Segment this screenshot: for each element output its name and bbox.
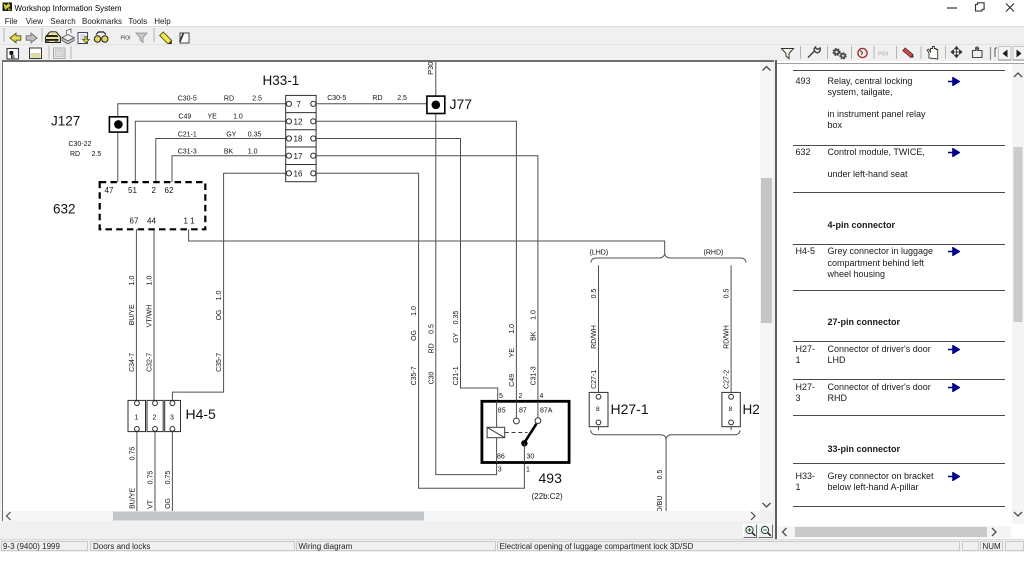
svg-text:C34-7: C34-7: [129, 352, 136, 371]
connector H2: [722, 392, 740, 426]
svg-text:H33-1: H33-1: [263, 72, 300, 87]
svg-text:OG: OG: [165, 498, 172, 509]
svg-text:44: 44: [147, 216, 156, 225]
wire C21-1 632 pin 2 to H33-1 pin 18: [156, 138, 286, 182]
svg-text:OG: OG: [411, 330, 418, 341]
diagram pane chrome: [0, 60, 2, 539]
svg-text:8: 8: [729, 405, 733, 412]
wire C30 J77 to relay pin 3: [436, 113, 497, 474]
svg-text:0.75: 0.75: [148, 470, 155, 484]
wire VT below H4-5 pin 2: [154, 431, 156, 510]
junction J127: [109, 116, 127, 131]
svg-text:18: 18: [294, 134, 303, 143]
svg-text:C30: C30: [428, 371, 435, 384]
junction J77: [427, 96, 445, 113]
svg-text:C49: C49: [178, 113, 191, 120]
svg-text:C21-1: C21-1: [453, 366, 460, 385]
svg-text:1.0: 1.0: [509, 323, 516, 333]
wire value labels rotated: [129, 61, 731, 517]
svg-text:BU/YE: BU/YE: [129, 304, 136, 325]
svg-text:GY: GY: [453, 332, 460, 342]
connector H4-5: [128, 400, 181, 431]
svg-text:C31-3: C31-3: [530, 366, 537, 385]
svg-text:2: 2: [519, 393, 523, 400]
wire C30-5 H33-1 pin 7 to J77: [316, 102, 427, 104]
svg-text:0.35: 0.35: [453, 310, 460, 324]
svg-text:BK: BK: [530, 331, 537, 341]
svg-text:2.5: 2.5: [252, 95, 262, 102]
right panel list: [793, 70, 1005, 71]
dashed actuator link: [505, 431, 528, 433]
svg-text:VT: VT: [148, 499, 155, 509]
strip below diagram: [0, 521, 775, 539]
svg-text:(RHD): (RHD): [704, 249, 724, 256]
svg-text:0.5: 0.5: [591, 288, 598, 298]
wire RD/WH LHD to H27-1: [598, 265, 600, 392]
svg-text:1.0: 1.0: [411, 306, 418, 316]
svg-text:2.5: 2.5: [397, 95, 407, 102]
pin 1: [135, 400, 140, 405]
svg-text:0.75: 0.75: [129, 446, 136, 460]
svg-text:H2: H2: [743, 401, 760, 416]
wire BU/YE 632 pin 67 to H4-5 pin 1: [135, 229, 137, 400]
zoom buttons: [743, 524, 757, 539]
wire C31-3 632 pin 62 to H33-1 pin 17: [172, 155, 286, 181]
svg-text:87A: 87A: [540, 407, 553, 414]
svg-text:1: 1: [526, 466, 530, 473]
svg-text:12: 12: [294, 117, 303, 126]
right panel: [777, 61, 1024, 539]
menu bar: [0, 14, 1024, 26]
svg-text:1.0: 1.0: [216, 290, 223, 300]
svg-text:C21-1: C21-1: [178, 131, 197, 138]
wire P30 above J77: [435, 62, 437, 96]
switch arm: [525, 423, 536, 441]
wire value labels horizontal: [68, 95, 407, 158]
wire C30-5 J127 to H33-1 pin 7: [118, 103, 286, 116]
svg-text:1.0: 1.0: [248, 148, 258, 155]
diagram vertical scrollbar: [760, 62, 773, 511]
svg-text:(LHD): (LHD): [590, 249, 609, 256]
svg-text:17: 17: [294, 151, 303, 160]
toolbar row 2 right: [770, 44, 1024, 61]
wire C31-3 H33-1 pin 17 to relay pin 4: [316, 155, 538, 401]
svg-text:1.0: 1.0: [147, 275, 154, 285]
svg-text:493: 493: [539, 469, 563, 485]
toolbar row 2 left: [0, 44, 160, 61]
svg-text:30: 30: [527, 453, 535, 460]
right panel vertical scrollbar: [1012, 64, 1024, 524]
control module 632: [100, 182, 206, 229]
wire C49 632 pin 51 to H33-1 pin 12: [135, 121, 286, 182]
wire RD/WH RHD to H2: [730, 265, 732, 392]
pin 7: [286, 101, 291, 106]
connector H27-1: [589, 392, 608, 426]
svg-text:H4-5: H4-5: [186, 405, 217, 421]
svg-text:OG: OG: [216, 309, 223, 320]
title bar: [0, 0, 1024, 14]
svg-text:0.35: 0.35: [248, 131, 262, 138]
svg-text:GY: GY: [226, 131, 236, 138]
svg-text:1.0: 1.0: [129, 275, 136, 285]
svg-text:C32-7: C32-7: [147, 352, 154, 371]
connector H33-1: [286, 95, 316, 181]
svg-text:8: 8: [596, 405, 600, 412]
svg-text:C30-5: C30-5: [178, 95, 197, 102]
svg-text:C49: C49: [509, 373, 516, 386]
relay 493: [482, 401, 569, 462]
svg-text:C35-7: C35-7: [216, 352, 223, 371]
svg-text:67: 67: [130, 216, 139, 225]
split brace top LHD/RHD: [591, 254, 746, 262]
wiring diagram canvas: [3, 62, 759, 511]
svg-text:0.5: 0.5: [657, 469, 664, 479]
svg-text:RD: RD: [372, 95, 382, 102]
svg-text:16: 16: [294, 169, 303, 178]
svg-text:1 1: 1 1: [184, 216, 196, 225]
svg-text:(22b:C2): (22b:C2): [532, 491, 563, 500]
status bar: [0, 539, 1024, 552]
svg-text:0.75: 0.75: [165, 470, 172, 484]
wire C35-7 H33-1 pin 16 to relay pin 1: [316, 173, 524, 488]
svg-text:C30-5: C30-5: [327, 95, 346, 102]
pin 30 lead: [523, 443, 525, 462]
pin 12: [286, 118, 291, 123]
svg-text:C31-3: C31-3: [178, 148, 197, 155]
svg-text:0.5: 0.5: [724, 288, 731, 298]
svg-text:62: 62: [165, 186, 174, 195]
svg-text:RD/WH: RD/WH: [591, 325, 598, 349]
diagram horizontal scrollbar: [3, 511, 760, 521]
wire C21-1 H33-1 pin 18 to relay pin 5: [316, 138, 498, 401]
wire stub below H27-1: [598, 426, 600, 430]
svg-text:0.5: 0.5: [428, 324, 435, 334]
svg-text:YE: YE: [208, 113, 218, 120]
wire RD/BU below join: [665, 438, 667, 510]
wire BU/YE below H4-5 pin 1: [136, 431, 138, 510]
svg-text:2: 2: [152, 186, 157, 195]
wire stub below H2: [730, 426, 732, 430]
svg-text:J127: J127: [51, 113, 80, 128]
svg-text:RD: RD: [428, 343, 435, 353]
svg-text:BU/YE: BU/YE: [129, 487, 136, 508]
svg-text:BK: BK: [224, 148, 234, 155]
svg-text:47: 47: [105, 186, 114, 195]
svg-text:RD/WH: RD/WH: [724, 325, 731, 349]
svg-text:VT/WH: VT/WH: [147, 304, 154, 327]
pin 2: [153, 400, 158, 405]
svg-text:1: 1: [135, 414, 139, 421]
svg-text:P30: P30: [426, 62, 435, 75]
svg-text:2.5: 2.5: [92, 151, 102, 158]
svg-text:H27-1: H27-1: [611, 400, 649, 416]
wire C30-22 J127 to 632 pin 47: [117, 132, 119, 182]
pin 18: [286, 135, 291, 140]
svg-text:1.0: 1.0: [530, 310, 537, 320]
svg-text:J77: J77: [450, 95, 473, 111]
contact 87: [515, 401, 517, 418]
svg-text:7: 7: [297, 100, 302, 109]
toolbar band: [0, 26, 1024, 62]
toolbar row 1 icons: [0, 26, 200, 44]
svg-text:87: 87: [519, 407, 527, 414]
wire C35-7 H4-5 pin 3 to H33-1 pin 16: [172, 173, 286, 400]
coil: [487, 427, 505, 437]
svg-text:C30-22: C30-22: [68, 140, 91, 147]
wire 632 pin 11 to LHD/RHD split: [189, 229, 665, 254]
svg-text:RD: RD: [224, 95, 234, 102]
svg-text:51: 51: [128, 186, 137, 195]
svg-text:PIOI: PIOI: [878, 52, 888, 58]
svg-text:3: 3: [170, 414, 174, 421]
svg-text:YE: YE: [509, 347, 516, 357]
svg-text:C27-1: C27-1: [591, 369, 598, 388]
svg-text:PIOI: PIOI: [121, 36, 131, 42]
pin 16: [286, 170, 291, 175]
svg-text:RD/BU: RD/BU: [657, 495, 664, 510]
wire OG below H4-5 pin 3: [171, 431, 173, 510]
svg-text:4: 4: [540, 393, 544, 400]
svg-text:1.0: 1.0: [233, 113, 243, 120]
svg-text:632: 632: [53, 201, 76, 216]
svg-text:5: 5: [499, 393, 503, 400]
svg-text:86: 86: [497, 453, 505, 460]
svg-text:3: 3: [498, 466, 502, 473]
join brace bottom: [591, 430, 741, 438]
svg-text:C35-7: C35-7: [411, 366, 418, 385]
contact 87A: [537, 401, 539, 418]
svg-text:RD: RD: [70, 151, 80, 158]
svg-text:C27-2: C27-2: [724, 369, 731, 388]
wire C49 H33-1 pin 12 to relay pin 2: [316, 121, 516, 401]
pin 17: [286, 153, 291, 158]
svg-text:2: 2: [153, 414, 157, 421]
right panel horizontal scrollbar: [777, 526, 1011, 538]
pin 3: [170, 400, 175, 405]
coil wire 85-86: [496, 401, 498, 462]
wire VT/WH 632 pin 44 to H4-5 pin 2: [153, 229, 155, 400]
svg-text:85: 85: [498, 407, 506, 414]
